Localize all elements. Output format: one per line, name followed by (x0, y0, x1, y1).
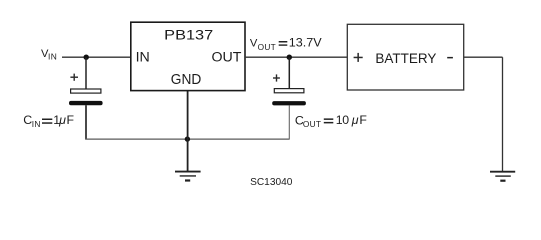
svg-text:μ: μ (351, 113, 359, 127)
capacitor COUT top plate (274, 89, 304, 93)
svg-text:IN: IN (32, 119, 41, 129)
wire VIN to IN pin (62, 56, 131, 58)
capacitor CIN value label (23, 113, 74, 129)
svg-text:IN: IN (48, 52, 57, 62)
svg-text:BATTERY: BATTERY (375, 51, 437, 67)
wire GND lead (regulator to ground) (187, 91, 189, 171)
ground symbol left (175, 172, 201, 181)
regulator U1 PB137 box (131, 22, 245, 90)
wire COUT top lead (288, 57, 290, 89)
capacitor CIN top plate (71, 89, 101, 93)
svg-text:GND: GND (171, 72, 202, 88)
svg-text:0: 0 (342, 113, 349, 127)
battery minus terminal label (447, 57, 453, 59)
battery plus terminal label (354, 53, 363, 62)
node VOUT label (250, 37, 322, 52)
svg-text:13.7V: 13.7V (289, 37, 322, 50)
capacitor COUT value label (295, 113, 368, 129)
ground symbol right (490, 172, 515, 181)
svg-text:F: F (359, 113, 367, 127)
wire CIN bottom lead (85, 105, 87, 139)
svg-text:F: F (67, 113, 75, 127)
node junction A (VIN / CIN) (84, 55, 89, 60)
svg-text:OUT: OUT (212, 50, 242, 66)
wire bottom rail (85, 138, 289, 140)
capacitor COUT polarity + (273, 74, 280, 81)
wire COUT bottom lead (288, 105, 290, 139)
capacitor CIN polarity + (70, 74, 78, 81)
capacitor CIN bottom plate (69, 101, 103, 105)
svg-text:IN: IN (136, 50, 150, 66)
node junction GND rail (185, 136, 190, 141)
svg-text:PB137: PB137 (164, 28, 213, 44)
wire OUT to battery (245, 56, 348, 58)
node junction B (VOUT / COUT) (287, 55, 292, 60)
svg-text:OUT: OUT (258, 42, 276, 52)
capacitor COUT bottom plate (272, 101, 306, 105)
node VIN label (41, 48, 57, 62)
wire CIN top lead (85, 57, 87, 89)
wire battery to ground drop (464, 56, 503, 58)
wire right vertical drop (502, 57, 504, 171)
svg-text:SC13040: SC13040 (250, 177, 293, 188)
battery B1 box (347, 24, 463, 90)
svg-text:OUT: OUT (303, 119, 321, 129)
svg-text:μ: μ (58, 113, 66, 127)
